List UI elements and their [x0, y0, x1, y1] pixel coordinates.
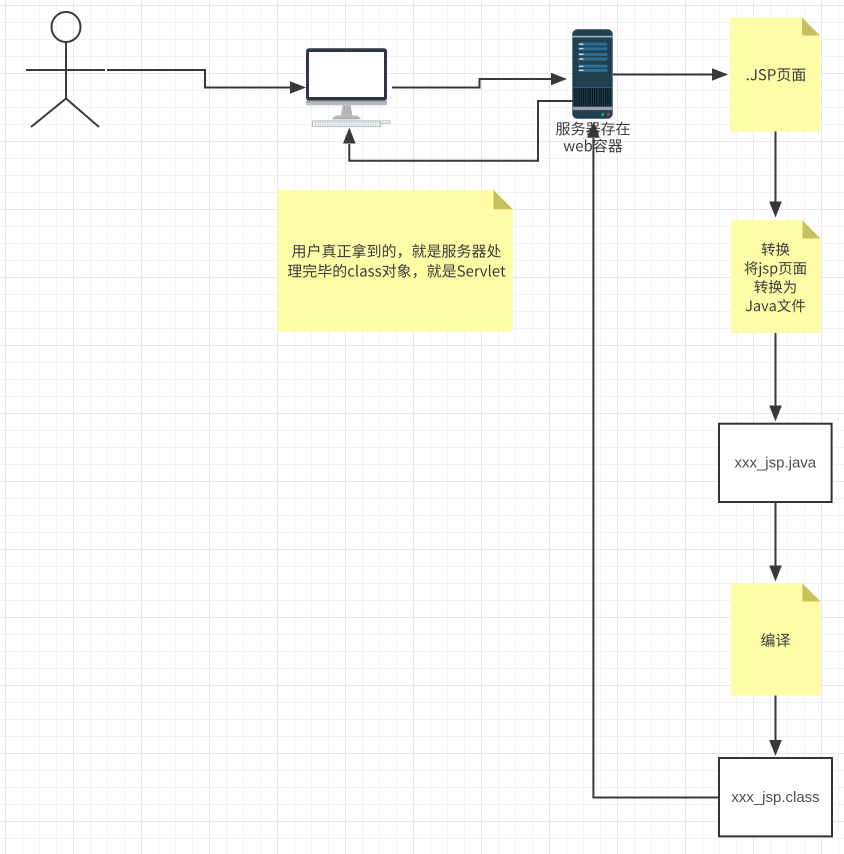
svg-text:xxx_jsp.java: xxx_jsp.java	[734, 455, 816, 472]
box: xxx_jsp.class	[719, 758, 832, 836]
wire: xxx_jsp.class box back to server	[587, 122, 719, 798]
wire: actor to monitor	[107, 70, 306, 94]
monitor (client computer)	[306, 48, 390, 126]
wire: 编译 note to xxx_jsp.class box	[769, 696, 782, 757]
wire: 转换 note to xxx_jsp.java box	[769, 333, 782, 422]
wire: server back to monitor	[343, 101, 572, 161]
wire: monitor to server	[392, 73, 567, 88]
wire: xxx_jsp.java box to 编译 note	[769, 502, 782, 582]
box: xxx_jsp.java	[719, 424, 832, 502]
note: .JSP页面	[730, 18, 820, 132]
wire: .JSP页面 note to 转换 note	[769, 132, 782, 218]
svg-text:xxx_jsp.class: xxx_jsp.class	[731, 789, 819, 806]
wire: server to .JSP页面 note	[613, 68, 728, 81]
actor (user stick figure)	[26, 12, 105, 127]
server (tower, web container)	[572, 29, 612, 118]
note: 转换 将jsp页面 转换为 Java文件	[731, 221, 821, 334]
note: 用户真正拿到的，就是服务器处理完毕的class对象，就是Servlet	[278, 190, 513, 332]
label: 服务器存在 web容器	[556, 122, 630, 153]
note: 编译	[731, 584, 821, 696]
